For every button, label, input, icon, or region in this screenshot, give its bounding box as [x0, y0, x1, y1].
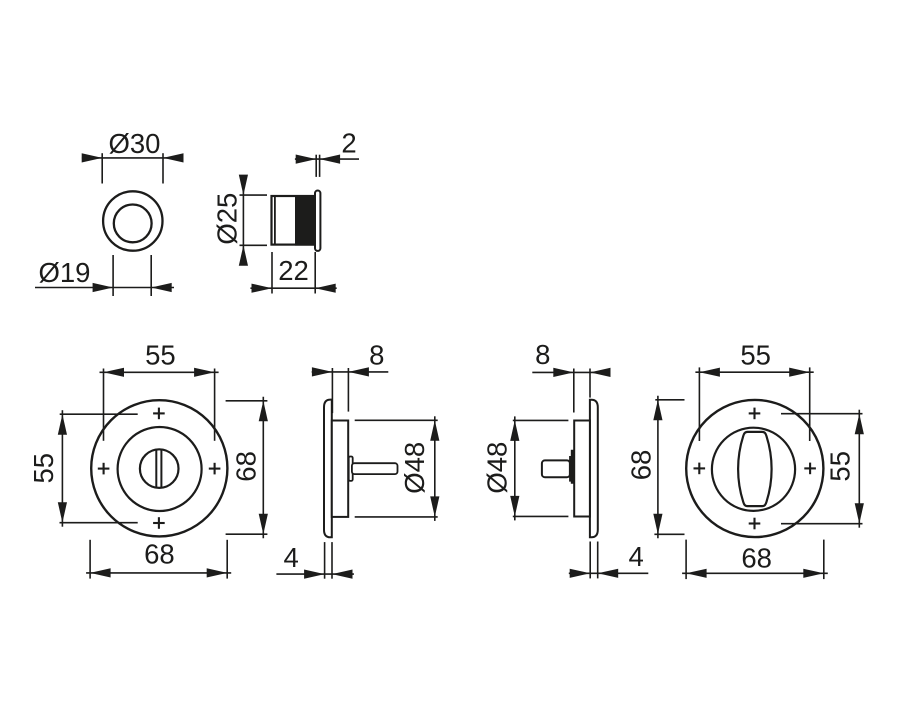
- svg-text:55: 55: [145, 339, 176, 370]
- dimension Ø25 arrow bottom: [239, 245, 248, 265]
- rose 1 dim 68 right line: [262, 397, 264, 538]
- rose 2 dim 68 left ext top: [655, 399, 684, 401]
- rose 2 screw mark bottom: [749, 522, 761, 524]
- rose 2 screw mark top: [749, 412, 761, 414]
- rose 1 dim 55 left ext top: [60, 413, 138, 415]
- rose side A dim Ø48 arrow top: [430, 420, 439, 441]
- svg-text:Ø48: Ø48: [399, 442, 430, 494]
- dimension 2 arrow right: [320, 155, 341, 164]
- dimension 2 extension line left: [315, 155, 317, 177]
- rose 2 dim 55 top arrow left: [699, 368, 720, 377]
- dimension 2 line: [295, 158, 359, 160]
- rose 2 dim 68 bottom arrow right: [803, 569, 824, 578]
- svg-text:22: 22: [278, 255, 309, 286]
- svg-text:8: 8: [535, 339, 550, 370]
- rose side A dim Ø48 ext top: [355, 419, 438, 421]
- dimension Ø25 line: [242, 176, 244, 266]
- svg-text:68: 68: [230, 451, 261, 482]
- dimension Ø19 arrow right: [151, 283, 172, 292]
- dimension Ø25 extension line top: [240, 194, 268, 196]
- svg-text:68: 68: [741, 543, 772, 574]
- rose side A dim Ø48 arrow bottom: [430, 496, 439, 517]
- rose 2 outer circle Ø68: [686, 400, 823, 537]
- rose side A dim 4 line: [276, 573, 354, 575]
- svg-text:8: 8: [369, 340, 384, 371]
- rose side B dim Ø48 ext top: [513, 419, 569, 421]
- rose 2 dim 68 left arrow top: [653, 400, 662, 421]
- rose 1 dim 55 top line: [100, 371, 219, 373]
- rose side A dim Ø48 ext bottom: [355, 516, 438, 518]
- rose 1 dim 55 top ext left: [103, 369, 105, 441]
- rose side A spindle boss: [349, 457, 353, 481]
- dimension 22 extension line left: [271, 252, 273, 294]
- rose side B cover plate: [590, 400, 598, 538]
- rose 1 screw mark left: [98, 468, 110, 470]
- rose 1 outer circle Ø68: [91, 400, 227, 536]
- rose 1 dim 68 right arrow top: [259, 401, 268, 422]
- svg-text:68: 68: [144, 538, 175, 569]
- rose side B dim 4 arrow left: [570, 569, 591, 578]
- rose 2 inner ring: [712, 428, 795, 511]
- dimension 2 extension line right: [319, 155, 321, 177]
- rose 2 screw mark left: [694, 467, 706, 469]
- dimension Ø30 arrow right: [163, 153, 184, 162]
- rose side A dim Ø48 line: [434, 416, 436, 521]
- rose 1 dim 55 left line: [61, 410, 63, 527]
- rose 1 coin slot line left: [155, 450, 157, 488]
- rose 2 dim 68 left arrow bottom: [653, 514, 662, 535]
- rose side B dim 4 ext left: [589, 542, 591, 579]
- rose 2 dim 55 right ext top: [781, 413, 863, 415]
- rose side A dim 8 arrow left: [312, 367, 333, 376]
- rose 1 dim 55 top arrow left: [104, 368, 125, 377]
- rose 1 dim 68 bottom arrow left: [90, 568, 111, 577]
- rose 2 dim 68 bottom ext right: [823, 540, 825, 580]
- rose 2 dim 68 bottom arrow left: [686, 569, 707, 578]
- svg-text:Ø48: Ø48: [482, 442, 513, 494]
- rose 2 dim 55 top ext left: [698, 367, 700, 441]
- dimension 22 arrow left: [252, 284, 273, 293]
- cylinder side view flange capsule: [315, 191, 320, 251]
- rose 1 dim 55 left arrow top: [58, 414, 67, 435]
- cylinder side view front edge line: [274, 196, 276, 245]
- rose 2 dim 55 right arrow bottom: [855, 503, 864, 524]
- cylinder front view inner hole Ø19: [114, 205, 152, 243]
- rose side A dim 8 line: [312, 371, 389, 373]
- rose 2 dim 68 bottom line: [682, 572, 828, 574]
- rose 2 dim 68 left ext bottom: [654, 533, 684, 535]
- dimension Ø19 extension line right: [150, 255, 152, 296]
- rose 1 dim 55 top ext right: [214, 369, 216, 441]
- rose 1 dim 68 right ext bottom: [226, 533, 268, 535]
- rose 1 screw mark right: [209, 468, 221, 470]
- cylinder front view outer circle Ø30: [103, 191, 162, 250]
- dimension Ø30 extension line right: [162, 153, 164, 183]
- rose 1 dim 68 right arrow bottom: [259, 514, 268, 535]
- dimension 2 arrow left: [296, 155, 317, 164]
- rose 1 dim 55 left ext bottom: [60, 522, 138, 524]
- rose 1 dim 68 bottom ext left: [89, 540, 91, 579]
- rose 2 dim 55 top ext right: [809, 367, 811, 441]
- rose 2 dim 68 bottom ext left: [685, 540, 687, 580]
- dimension Ø30 extension line left: [101, 153, 103, 183]
- rose 1 coin slot line right: [160, 450, 162, 488]
- rose 1 screw mark top: [153, 412, 165, 414]
- rose 1 screw mark bottom: [153, 522, 165, 524]
- rose side B base plate: [574, 421, 590, 517]
- rose side A dim 8 arrow right: [348, 367, 369, 376]
- cylinder side view body: [272, 196, 314, 245]
- dimension Ø30 line: [82, 157, 184, 159]
- dimension Ø19 arrow left: [93, 283, 114, 292]
- rose 1 dim 55 top arrow right: [194, 368, 215, 377]
- rose side A dim 4 ext left: [324, 542, 326, 579]
- rose 2 screw mark right: [804, 467, 816, 469]
- rose 1 inner ring: [118, 427, 202, 511]
- rose 1 dim 68 bottom arrow right: [207, 568, 228, 577]
- rose 2 dim 68 left line: [657, 396, 659, 539]
- rose 2 dim 55 right line: [858, 410, 860, 528]
- rose side B dim Ø48 arrow top: [510, 420, 519, 441]
- rose 1 dim 68 bottom ext right: [226, 540, 228, 579]
- rose 2 dim 55 top line: [695, 371, 813, 373]
- cylinder side view knurled section (black): [295, 195, 314, 246]
- dimension Ø25 arrow top: [239, 175, 248, 196]
- svg-text:55: 55: [740, 339, 771, 370]
- rose 1 release button circle: [140, 449, 179, 488]
- svg-text:68: 68: [626, 450, 657, 481]
- dimension Ø25 extension line bottom: [240, 244, 268, 246]
- rose side B dim 4 arrow right: [598, 569, 619, 578]
- rose side B dim 8 ext left: [573, 369, 575, 413]
- dimension 22 arrow right: [315, 284, 336, 293]
- rose side B dim 8 arrow right: [590, 368, 611, 377]
- rose 1 dim 68 bottom line: [86, 572, 231, 574]
- rose side B dim 8 arrow left: [553, 368, 574, 377]
- dimension Ø19 line: [35, 287, 174, 289]
- rose side A dim 4 ext right: [331, 542, 333, 579]
- rose side B dim Ø48 line: [514, 416, 516, 520]
- dimension 22 extension line right: [314, 252, 316, 294]
- rose side A dim 4 arrow right: [332, 570, 353, 579]
- rose 2 dim 55 right arrow top: [855, 414, 864, 435]
- svg-text:4: 4: [628, 541, 643, 572]
- rose side B dim 8 ext right: [589, 369, 591, 398]
- rose 1 dim 68 right ext top: [226, 400, 268, 402]
- rose side A dim 4 arrow left: [304, 570, 325, 579]
- rose side A spindle: [352, 463, 398, 474]
- dimension 22 line: [250, 287, 336, 289]
- rose side B spindle stub: [542, 460, 570, 477]
- rose side B dim 4 line: [569, 572, 649, 574]
- svg-text:55: 55: [824, 451, 855, 482]
- svg-text:55: 55: [28, 453, 59, 484]
- rose side A dim 8 ext right: [347, 368, 349, 412]
- rose side B dim 8 line: [532, 371, 610, 373]
- svg-text:Ø19: Ø19: [39, 257, 91, 288]
- rose side B dim Ø48 arrow bottom: [510, 496, 519, 517]
- svg-text:Ø25: Ø25: [211, 193, 242, 245]
- svg-text:Ø30: Ø30: [109, 128, 161, 159]
- rose 2 thumbturn: [738, 432, 772, 506]
- rose side A base plate: [332, 421, 348, 517]
- rose 1 dim 55 left arrow bottom: [58, 502, 67, 523]
- rose side B dim 4 ext right: [597, 542, 599, 579]
- svg-text:2: 2: [341, 128, 356, 159]
- rose side B dim Ø48 ext bottom: [513, 515, 569, 517]
- dimension Ø30 arrow left: [82, 153, 103, 162]
- svg-text:4: 4: [284, 542, 299, 573]
- rose side A cover plate: [324, 400, 332, 538]
- dimension Ø19 extension line left: [112, 255, 114, 296]
- rose 2 dim 55 right ext bottom: [781, 523, 863, 525]
- rose side A dim 8 ext left: [331, 368, 333, 413]
- rose side B spindle boss: [570, 450, 575, 483]
- rose 2 dim 55 top arrow right: [789, 368, 810, 377]
